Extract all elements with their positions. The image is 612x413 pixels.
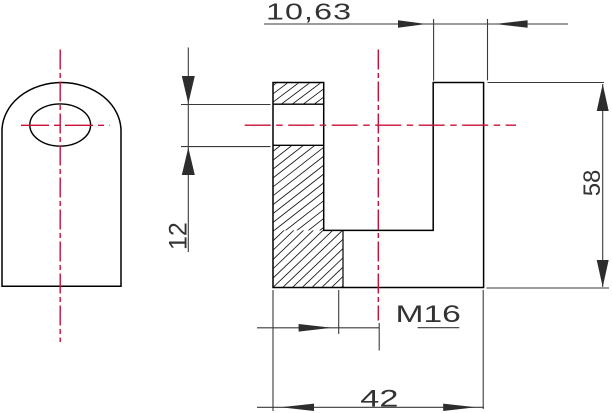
dimension 58: upper arrowhead (up) [597, 84, 609, 111]
dimension 42: right extension line [482, 290, 484, 409]
left view: hole (ellipse) [30, 104, 91, 146]
dimension M16: dimension line [257, 327, 379, 329]
left view: outer outline of tab-shaped part [2, 82, 121, 286]
right view: hatching of upper wall band [245, 80, 357, 106]
dimension 10,63: right arrowhead [495, 20, 528, 28]
svg-text:M16: M16 [396, 301, 461, 327]
dimension M16: left extension line (shared with 42) [272, 290, 274, 411]
dimension 10,63: left extension line [433, 19, 435, 81]
right view: vertical centerline [377, 50, 379, 321]
left view: vertical centerline [59, 50, 61, 343]
svg-text:42: 42 [360, 385, 398, 412]
dimension 10,63: dimension line [264, 23, 568, 25]
dimension 58: lower arrowhead (down) [597, 260, 609, 287]
dimension M16: text underline segment [418, 327, 460, 329]
dimension 12: lower arrowhead (up) [182, 148, 195, 176]
dimension 42: dimension line [257, 406, 484, 408]
svg-text:58: 58 [579, 170, 606, 197]
right view: upper hole edge in left wall [273, 103, 324, 105]
svg-text:12: 12 [165, 222, 193, 250]
right view: horizontal centerline through holes [245, 124, 516, 126]
dimension M16: tick at centerline [378, 323, 380, 351]
dimension 10,63: left arrowhead [398, 20, 426, 28]
left view: horizontal centerline of hole [21, 124, 110, 126]
dimension M16: right extension line [338, 290, 340, 334]
dimension 58: lower extension line [487, 287, 610, 289]
right view: lower hole edge in left wall [273, 144, 324, 146]
dimension 42: right arrowhead (right) [443, 404, 476, 411]
dimension 12: dimension line [187, 48, 189, 253]
dimension 58: upper extension line [488, 82, 605, 84]
right view: section boundary line in base [342, 230, 344, 287]
dimension 42: left arrowhead (left) [281, 404, 314, 411]
dimension 58: dimension line [602, 84, 604, 287]
right view: hatching of base section [212, 227, 404, 290]
right view: hatching of lower wall [156, 143, 432, 234]
dimension 10,63: right extension line [487, 19, 489, 80]
right view: outer outline (U-shaped section) [273, 83, 484, 288]
dimension 12: lower extension line [181, 146, 271, 148]
dimension 12: upper arrowhead (down) [182, 76, 195, 104]
dimension M16: arrowhead (right) [299, 324, 332, 332]
dimension 12: upper extension line [181, 104, 271, 106]
svg-text:10,63: 10,63 [266, 0, 352, 24]
